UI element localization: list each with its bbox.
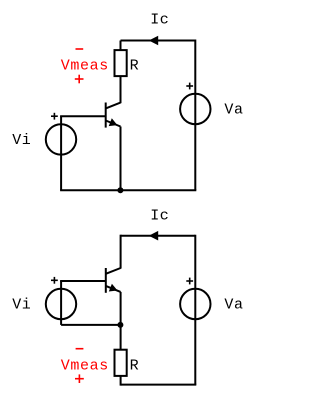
resistor R circuit 1: [115, 50, 127, 76]
wire left branch circuit 2: [60, 281, 62, 325]
wire right branch circuit 2: [194, 235, 196, 385]
wire top rail circuit 2: [121, 235, 196, 237]
wire bottom rail circuit 2: [121, 384, 197, 386]
wire emitter to node circuit 2: [120, 292, 122, 350]
plus sign Va circuit 2: [186, 278, 193, 285]
wire base circuit 2: [60, 280, 106, 282]
plus sign Vi circuit 2: [51, 277, 58, 284]
wire top rail circuit 1: [121, 40, 196, 42]
current arrow Ic circuit 1: [149, 36, 158, 46]
polarity plus Vmeas circuit 1: [75, 75, 84, 84]
polarity plus Vmeas circuit 2: [75, 374, 84, 383]
wire left branch circuit 1: [60, 116, 62, 190]
svg-text:Ic: Ic: [150, 207, 169, 224]
wire bottom rail circuit 1: [60, 189, 196, 191]
svg-text:Vmeas: Vmeas: [61, 357, 109, 374]
polarity minus Vmeas circuit 2: [76, 348, 84, 350]
plus sign Va circuit 1: [186, 83, 193, 90]
wire resistor top lead circuit 1: [120, 41, 122, 51]
current arrow Ic circuit 2: [149, 231, 158, 241]
transistor Q2: [106, 268, 121, 293]
resistor R circuit 2: [115, 350, 127, 376]
transistor Q1: [106, 103, 121, 128]
wire resistor bottom lead circuit 2: [120, 376, 122, 386]
svg-text:Ic: Ic: [150, 12, 169, 29]
wire collector circuit 2: [120, 235, 122, 269]
svg-text:Va: Va: [224, 297, 243, 314]
wire Vi bottom circuit 2: [61, 324, 121, 326]
wire collector circuit 1: [120, 76, 122, 103]
wire base circuit 1: [60, 115, 106, 117]
svg-text:Vi: Vi: [12, 297, 31, 314]
wire emitter circuit 1: [120, 127, 122, 191]
svg-text:R: R: [130, 358, 140, 375]
voltage source Va circuit 2: [180, 289, 210, 319]
svg-text:Vi: Vi: [12, 132, 31, 149]
svg-text:Vmeas: Vmeas: [61, 57, 109, 74]
voltage source Vi circuit 1: [46, 124, 76, 154]
junction dot circuit 2: [117, 322, 123, 328]
junction dot circuit 1: [117, 187, 123, 193]
svg-text:Va: Va: [224, 102, 243, 119]
wire right branch circuit 1: [194, 40, 196, 191]
polarity minus Vmeas circuit 1: [76, 48, 84, 50]
voltage source Va circuit 1: [180, 94, 210, 124]
svg-text:R: R: [130, 58, 140, 75]
plus sign Vi circuit 1: [51, 113, 58, 120]
voltage source Vi circuit 2: [46, 289, 76, 319]
